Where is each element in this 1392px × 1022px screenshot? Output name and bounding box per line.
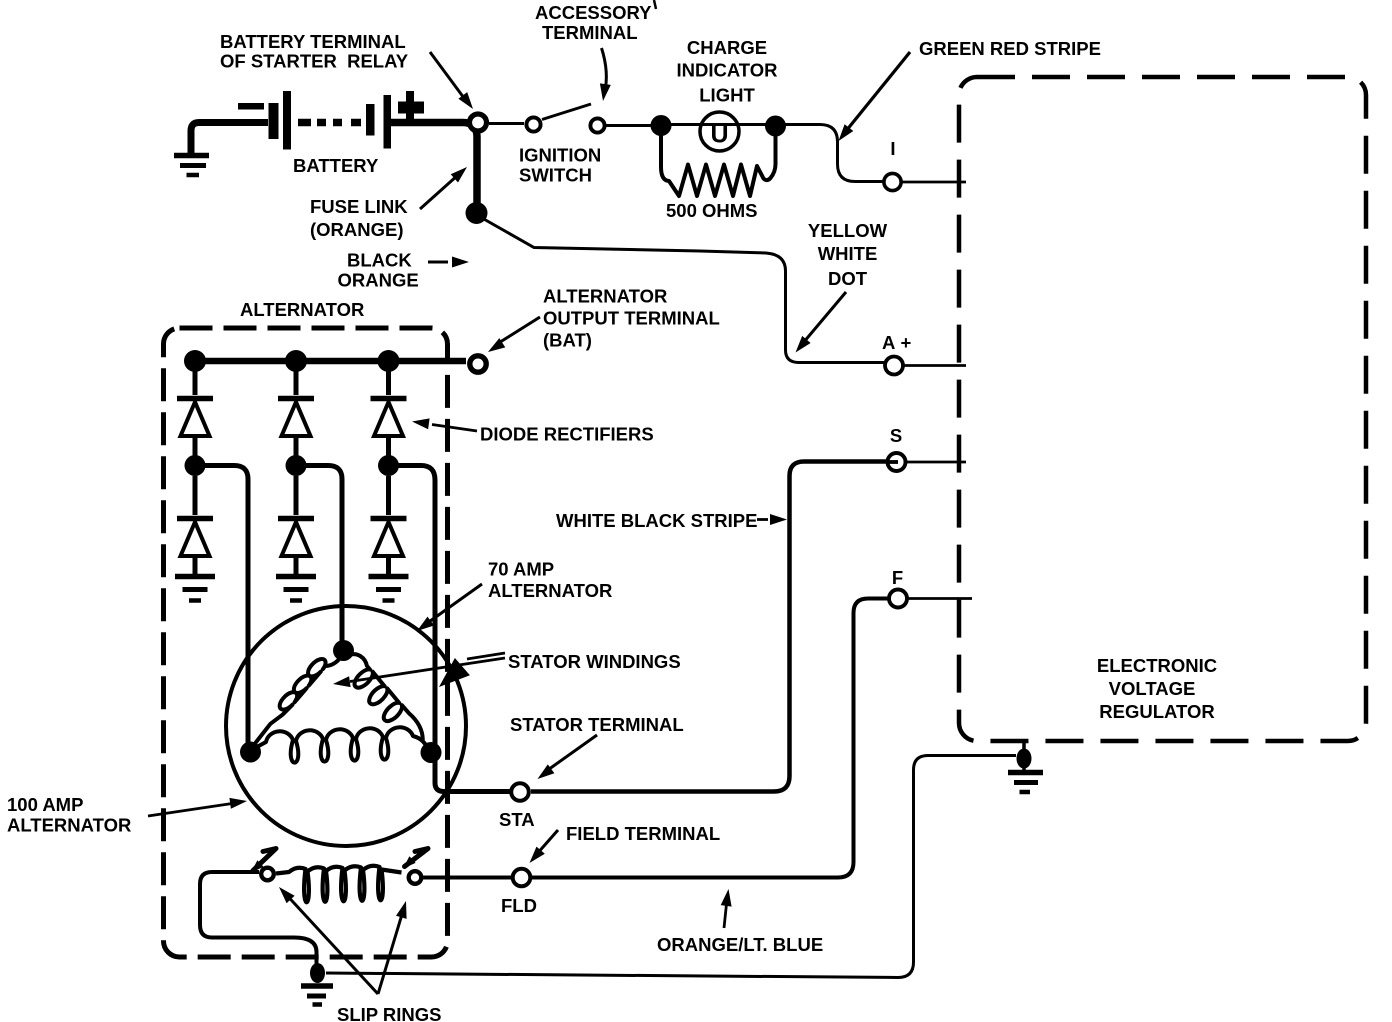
wire ignition switch to charge lamp [606,124,651,127]
stator winding upper-left coil [252,657,341,747]
ground (alternator case) [301,986,333,1005]
svg-text:REGULATOR: REGULATOR [1099,701,1214,722]
ignition switch blade [542,104,591,120]
svg-text:SWITCH: SWITCH [519,165,592,186]
svg-text:BATTERY: BATTERY [293,155,379,176]
svg-text:BATTERY TERMINAL: BATTERY TERMINAL [220,31,406,52]
svg-text:U: U [710,121,728,149]
svg-text:OUTPUT TERMINAL: OUTPUT TERMINAL [543,308,720,329]
label STATOR TERMINAL [510,714,684,735]
battery B1 minus sign [238,103,264,110]
diode rectifier D1 (positive) [177,361,213,456]
terminal F [889,590,907,608]
svg-text:OF STARTER RELAY: OF STARTER RELAY [220,51,409,72]
label I [890,138,895,159]
junction dot stator wye top [333,640,354,661]
svg-text:LIGHT: LIGHT [699,85,755,106]
junction dot stator wye left [240,742,261,763]
svg-text:VOLTAGE: VOLTAGE [1109,678,1196,699]
label FIELD TERMINAL [566,823,720,844]
label IGNITION SWITCH [519,145,601,186]
leader arrow stator terminal [538,735,598,779]
junction dot phase 3 [378,455,399,476]
svg-text:(ORANGE): (ORANGE) [310,219,404,240]
svg-text:GREEN RED STRIPE: GREEN RED STRIPE [919,38,1101,59]
leader arrow slip ring left [279,887,378,994]
junction dot alternator case ground [310,963,325,983]
label ACCESSORY TERMINAL [535,2,652,43]
svg-text:ALTERNATOR: ALTERNATOR [240,299,364,320]
svg-text:ORANGE: ORANGE [338,270,419,291]
svg-text:STATOR TERMINAL: STATOR TERMINAL [510,714,684,735]
label A+ [882,332,912,353]
battery B1 plates [269,91,392,150]
svg-text:F: F [892,567,903,588]
slip ring left [261,868,274,881]
battery B1 plus sign [398,91,424,123]
charge indicator lamp circle [700,112,739,151]
diode rectifier D6 (negative) with ground [369,476,409,601]
junction dot phase 2 [286,455,307,476]
label ELECTRONIC VOLTAGE REGULATOR [1097,655,1217,722]
slip ring right [409,871,422,884]
terminal FLD [513,869,531,887]
leader arrow to starter relay node [430,52,473,109]
diode rectifier D2 (positive) [278,361,314,456]
label GREEN RED STRIPE [919,38,1101,59]
junction dot right of lamp [765,116,786,137]
svg-text:TERMINAL: TERMINAL [542,22,638,43]
wire FLD to F terminal [532,599,891,878]
terminal STA [511,783,529,801]
svg-text:YELLOW: YELLOW [808,220,888,241]
battery cell dashes [298,119,361,127]
leader arrow 100 amp [148,798,247,816]
wire regulator ground stub [1022,741,1026,771]
stator winding upper-right coil [349,654,423,740]
label 500 OHMS [666,200,758,221]
svg-text:DOT: DOT [828,268,868,289]
svg-text:70 AMP: 70 AMP [488,559,554,580]
diode rectifier D5 (negative) with ground [276,476,316,601]
leader arrow stator windings B [439,653,505,687]
wire phase 2 to stator [306,466,342,642]
terminal BAT (alternator output) [470,356,486,372]
svg-text:STA: STA [499,809,535,830]
label 100 AMP ALTERNATOR [7,794,131,836]
resistor 500 ohms [661,130,776,196]
svg-text:(BAT): (BAT) [543,330,592,351]
junction dot regulator ground [1017,749,1032,769]
ignition switch contact 2 [590,118,604,132]
label YELLOW WHITE DOT [808,220,888,289]
leader arrow field terminal [530,830,559,863]
label S [890,425,902,446]
diode rectifier D3 (positive) [371,361,407,456]
leader arrow 70 amp [417,584,482,631]
stator winding bottom coil [255,727,429,762]
svg-text:BLACK: BLACK [347,250,412,271]
label BATTERY [293,155,379,176]
svg-text:100 AMP: 100 AMP [7,794,83,815]
svg-text:CHARGE: CHARGE [687,37,767,58]
junction dot bus phase 3 [378,350,400,372]
label F [892,567,903,588]
svg-text:FLD: FLD [501,895,537,916]
leader arrow green red stripe [839,52,911,141]
svg-text:ELECTRONIC: ELECTRONIC [1097,655,1217,676]
leader arrow black orange [428,257,469,268]
label STA [499,809,535,830]
wire field return (left ring to case ground) [200,872,317,966]
wire fuse link junction to A+ terminal [482,218,884,363]
junction dot phase 1 [185,455,206,476]
junction dot stator wye right [421,742,442,763]
label SLIP RINGS [337,1004,442,1022]
leader arrow orange lt blue [721,889,732,928]
leader arrow fuse link [420,167,467,209]
label BLACK ORANGE [338,250,419,291]
svg-text:ALTERNATOR: ALTERNATOR [7,815,131,836]
wire STA to S terminal [531,462,888,792]
wire FLD from right ring [423,876,512,880]
ground (battery negative) [174,156,209,176]
wire node to ignition switch [489,122,524,125]
leader arrow stator windings A [333,658,505,687]
label BATTERY TERMINAL OF STARTER RELAY [220,31,409,72]
wire through lamp [670,123,766,126]
svg-text:ALTERNATOR: ALTERNATOR [488,580,612,601]
leader arrow slip ring right [378,901,407,994]
svg-text:FIELD TERMINAL: FIELD TERMINAL [566,823,720,844]
svg-text:ALTERNATOR: ALTERNATOR [543,286,667,307]
svg-text:ORANGE/LT. BLUE: ORANGE/LT. BLUE [657,934,823,955]
wire phase 3 to stator and STA [398,466,512,792]
leader arrow to BAT terminal [488,317,540,352]
field winding coil [276,866,402,903]
alternator housing dashed box [164,328,448,957]
wire battery ground to battery [191,123,268,154]
junction dot left of lamp [651,115,672,136]
wire I into regulator [900,181,966,184]
svg-text:S: S [890,425,902,446]
label FUSE LINK (ORANGE) [310,196,408,240]
label WHITE BLACK STRIPE [556,510,757,531]
wire F into regulator [907,597,972,600]
wire phase 1 to stator [204,466,248,744]
wire A+ into regulator [903,364,966,367]
svg-text:STATOR WINDINGS: STATOR WINDINGS [508,651,681,672]
svg-text:DIODE RECTIFIERS: DIODE RECTIFIERS [480,424,654,445]
electronic voltage regulator dashed box [959,77,1366,741]
terminal A+ [885,357,903,375]
diode rectifier D4 (negative) with ground [175,476,215,601]
ground (regulator) [1008,773,1043,793]
leader arrow diode rectifiers [412,418,477,431]
brush left [251,849,276,873]
brush right [403,849,428,869]
svg-text:IGNITION: IGNITION [519,145,601,166]
lamp filament U [710,121,728,149]
bus bar diodes to BAT [198,358,466,365]
svg-text:ACCESSORY: ACCESSORY [535,2,652,23]
svg-text:I: I [890,138,895,159]
leader arrow white black stripe [757,514,787,525]
leader arrow accessory terminal to contact 2 [600,48,611,101]
stator circle (alternator rotor boundary) [226,606,466,846]
label ALTERNATOR (housing) [240,299,364,320]
svg-text:SLIP RINGS: SLIP RINGS [337,1004,442,1022]
svg-text:WHITE: WHITE [818,243,878,264]
wire battery to starter-relay node [391,123,477,206]
junction dot bus phase 1 [184,350,206,372]
label ORANGE/LT. BLUE [657,934,823,955]
label CHARGE INDICATOR LIGHT [676,37,777,106]
junction dot bus phase 2 [285,350,307,372]
label 70 AMP ALTERNATOR [488,559,612,602]
label FLD [501,895,537,916]
svg-text:INDICATOR: INDICATOR [676,60,777,81]
wire regulator ground to chassis bus [326,756,1016,978]
svg-text:FUSE LINK: FUSE LINK [310,196,408,217]
svg-text:WHITE BLACK STRIPE: WHITE BLACK STRIPE [556,510,757,531]
ignition switch contact 1 [526,117,540,131]
tick above accessory label [654,0,656,9]
svg-text:500 OHMS: 500 OHMS [666,200,758,221]
wire lamp to I terminal [785,125,883,182]
junction dot fuse link [466,202,488,224]
label STATOR WINDINGS [508,651,681,672]
node battery terminal of starter relay [470,114,487,131]
svg-text:A +: A + [882,332,912,353]
label ALTERNATOR OUTPUT TERMINAL (BAT) [543,286,720,351]
leader arrow yellow white dot [796,292,847,353]
wire S into regulator [905,461,966,464]
label DIODE RECTIFIERS [480,424,654,445]
terminal S [887,453,906,471]
terminal I [884,173,901,190]
